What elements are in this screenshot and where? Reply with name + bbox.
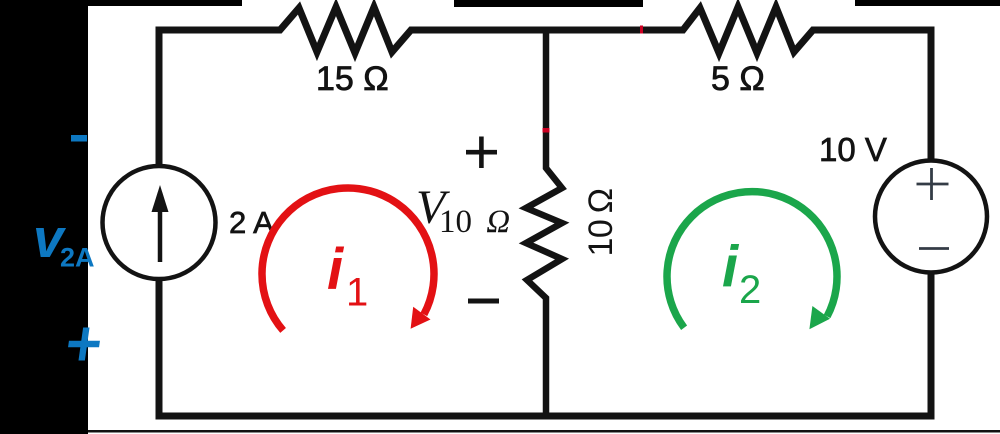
svg-text:i: i (722, 235, 740, 300)
voltage source 10V circle (875, 161, 987, 273)
red mesh current loop i1 (262, 188, 434, 330)
left black margin (0, 0, 88, 434)
current source 2A circle (103, 166, 216, 279)
red tick on middle wire (543, 128, 550, 133)
current source arrow (158, 205, 163, 262)
red arrowhead (411, 307, 431, 329)
svg-text:10 Ω: 10 Ω (439, 204, 510, 240)
svg-text:10 V: 10 V (819, 131, 887, 168)
bottom page rule (88, 430, 1000, 433)
minus inside voltage source (919, 247, 949, 250)
wire middle branch with 10-ohm resistor (526, 30, 562, 416)
minus below 10-ohm (468, 299, 499, 304)
plus inside voltage source (930, 168, 933, 200)
blue plus (bottom left) (66, 328, 102, 361)
top black bar segment 1 (88, 0, 242, 6)
svg-text:15 Ω: 15 Ω (316, 60, 389, 98)
svg-text:2A: 2A (60, 243, 95, 273)
svg-text:2: 2 (739, 268, 761, 312)
green mesh current loop i2 (667, 192, 837, 328)
green arrowhead (809, 306, 830, 329)
svg-text:1: 1 (346, 271, 368, 315)
top black bar segment 3 (855, 0, 1000, 6)
red tick on top wire (640, 26, 643, 34)
top black bar segment 2 (454, 0, 643, 7)
svg-text:5 Ω: 5 Ω (711, 60, 765, 98)
plus above 10-ohm (466, 150, 497, 155)
blue minus (top left) (71, 135, 87, 142)
svg-text:i: i (327, 237, 345, 302)
wire top loop with 15-ohm and 5-ohm resistors (159, 7, 931, 166)
wire bottom U (159, 273, 931, 416)
svg-text:10 Ω: 10 Ω (582, 188, 620, 256)
